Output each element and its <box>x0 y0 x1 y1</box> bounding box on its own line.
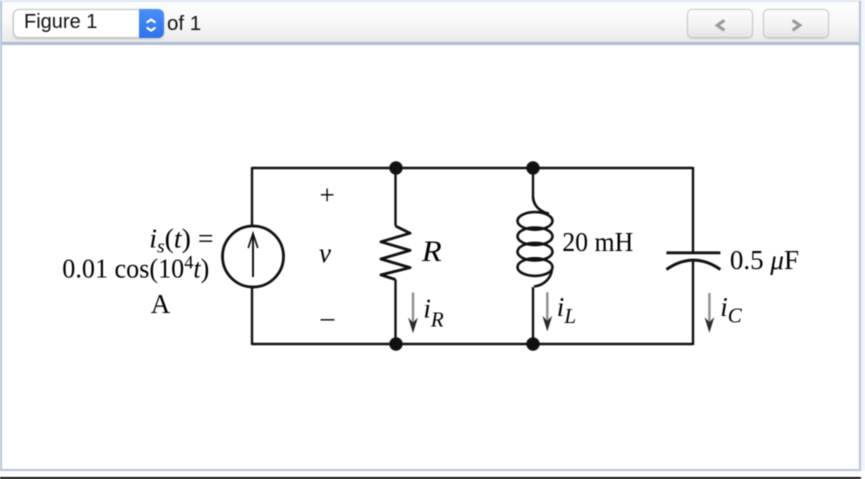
node top-right junction <box>526 161 539 174</box>
svg-text:v: v <box>319 238 331 268</box>
wire resistor bottom <box>394 280 396 346</box>
current arrow iL <box>542 292 552 331</box>
current source IS arrow <box>248 234 258 278</box>
wire capacitor top <box>692 167 694 252</box>
resistor R zigzag <box>381 226 410 280</box>
current arrow iC <box>705 293 715 333</box>
wire left-top <box>251 167 253 226</box>
capacitor C top plate <box>666 251 720 254</box>
label R <box>421 234 442 267</box>
current arrow iR <box>408 293 418 334</box>
label is(t) equation line2 <box>62 252 209 284</box>
svg-text:–: – <box>320 302 335 332</box>
wire left-bottom <box>251 287 253 345</box>
svg-text:iR: iR <box>423 294 444 332</box>
svg-text:iC: iC <box>720 292 743 328</box>
svg-text:0.01 cos(104t): 0.01 cos(104t) <box>62 252 209 284</box>
node bottom-left junction <box>389 337 402 350</box>
label 20 mH <box>562 226 633 257</box>
inductor L coil <box>518 197 553 287</box>
svg-text:iL: iL <box>557 292 576 328</box>
wire top <box>252 167 693 169</box>
label is(t) equation line1 <box>149 224 213 258</box>
node top-left junction <box>389 161 402 174</box>
svg-text:R: R <box>421 234 442 267</box>
capacitor C curved plate <box>666 260 720 269</box>
wire inductor top <box>532 167 534 198</box>
node bottom-right junction <box>526 337 539 350</box>
svg-text:A: A <box>151 289 171 319</box>
svg-text:0.5 μF: 0.5 μF <box>730 245 799 275</box>
svg-text:+: + <box>320 180 335 210</box>
wire bottom <box>252 343 693 345</box>
wire resistor top <box>394 167 396 226</box>
current source IS circle <box>223 226 284 287</box>
wire capacitor bottom <box>692 260 694 345</box>
svg-text:20 mH: 20 mH <box>562 226 633 257</box>
wire inductor bottom <box>532 287 534 345</box>
